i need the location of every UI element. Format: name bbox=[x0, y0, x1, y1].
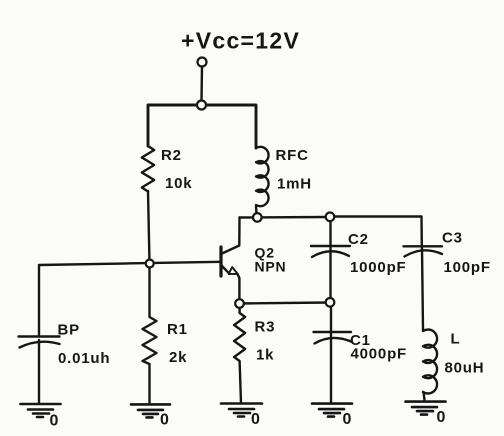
svg-text:0: 0 bbox=[437, 409, 447, 426]
svg-text:R2: R2 bbox=[161, 147, 182, 164]
svg-text:BP: BP bbox=[58, 322, 80, 339]
svg-text:4000pF: 4000pF bbox=[351, 346, 408, 363]
svg-text:0: 0 bbox=[343, 411, 353, 428]
svg-text:100pF: 100pF bbox=[444, 259, 491, 276]
svg-text:NPN: NPN bbox=[255, 259, 287, 275]
svg-text:0: 0 bbox=[160, 412, 170, 429]
svg-text:L: L bbox=[451, 331, 461, 348]
svg-text:+Vcc=12V: +Vcc=12V bbox=[181, 28, 300, 54]
svg-text:1000pF: 1000pF bbox=[350, 259, 407, 276]
svg-text:1k: 1k bbox=[256, 347, 274, 364]
svg-text:0.01uh: 0.01uh bbox=[58, 350, 110, 367]
svg-text:10k: 10k bbox=[165, 175, 192, 192]
svg-text:0: 0 bbox=[251, 411, 261, 428]
svg-text:RFC: RFC bbox=[276, 147, 309, 164]
svg-text:R3: R3 bbox=[255, 319, 276, 336]
svg-text:80uH: 80uH bbox=[445, 360, 485, 377]
svg-text:R1: R1 bbox=[167, 321, 188, 338]
svg-text:C2: C2 bbox=[348, 231, 369, 248]
svg-text:0: 0 bbox=[50, 413, 60, 430]
svg-text:1mH: 1mH bbox=[277, 176, 312, 193]
svg-text:C3: C3 bbox=[442, 230, 463, 247]
svg-text:2k: 2k bbox=[169, 349, 187, 366]
